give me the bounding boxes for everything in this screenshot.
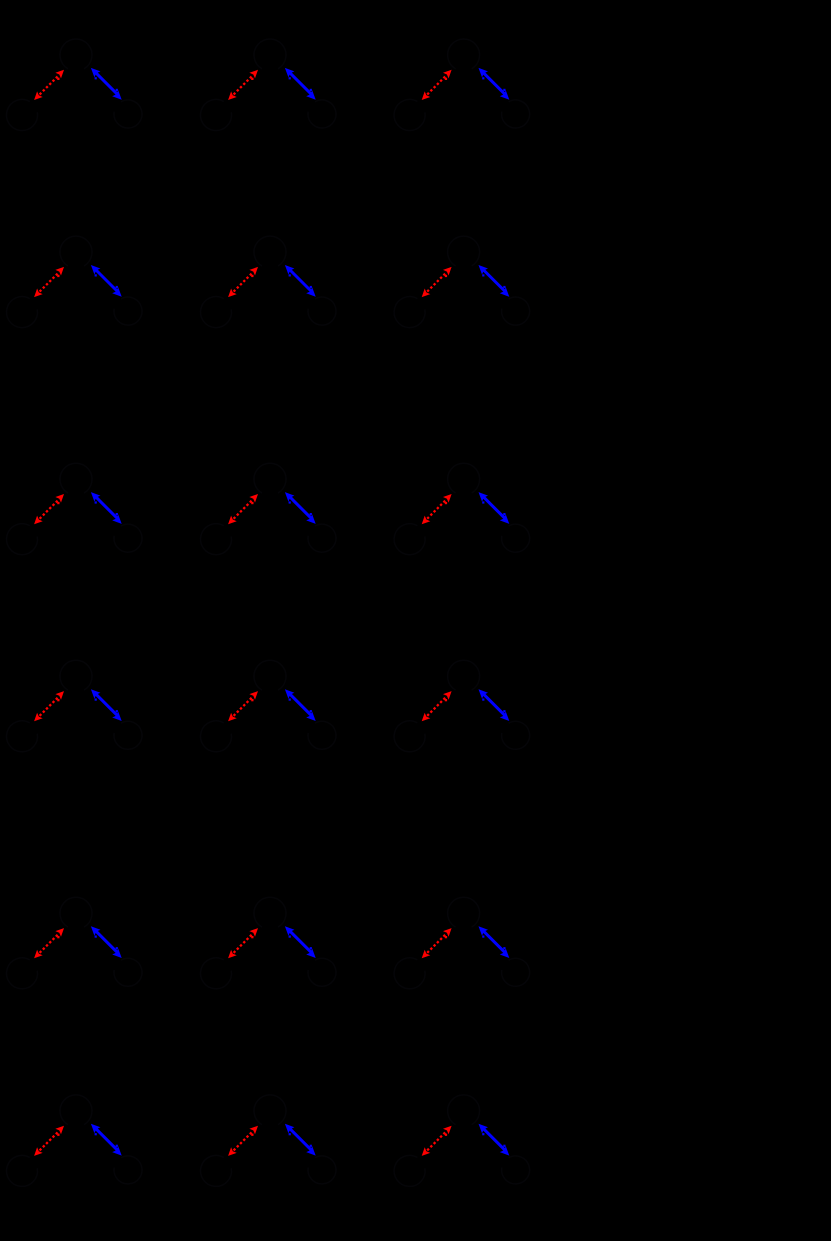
row 5 col 1 blue arrow — [91, 926, 122, 958]
row 5 col 3 blue arrow — [479, 926, 510, 958]
row 6 col 1 red arrow — [34, 1126, 64, 1156]
row 3 col 1 red arrow — [34, 494, 64, 524]
row 1 col 3 loops — [394, 39, 529, 131]
row 3 col 1 loops — [7, 463, 142, 555]
row 1 col 3 blue arrow — [479, 68, 510, 100]
row 4 col 2 loops — [201, 660, 336, 752]
row 5 col 1 red arrow — [34, 928, 64, 958]
row 1 col 3 red arrow — [422, 70, 452, 100]
row 3 col 3 blue arrow — [479, 492, 510, 524]
row 2 col 1 blue arrow — [91, 265, 122, 297]
row 5 col 1 loops — [7, 897, 142, 989]
row 6 col 2 red arrow — [228, 1126, 258, 1156]
row 3 col 3 loops — [394, 463, 529, 555]
row 3 col 2 loops — [201, 463, 336, 555]
row 3 col 2 red arrow — [228, 494, 258, 524]
row 2 col 1 loops — [7, 236, 142, 328]
row 2 col 2 blue arrow — [285, 265, 316, 297]
row 3 col 3 red arrow — [422, 494, 452, 524]
row 5 col 2 loops — [201, 897, 336, 989]
row 4 col 1 blue arrow — [91, 689, 122, 721]
row 4 col 1 loops — [7, 660, 142, 752]
row 1 col 1 red arrow — [34, 70, 64, 100]
row 3 col 2 blue arrow — [285, 492, 316, 524]
row 2 col 2 loops — [201, 236, 336, 328]
row 2 col 1 red arrow — [34, 267, 64, 297]
row 1 col 2 blue arrow — [285, 68, 316, 100]
row 4 col 3 red arrow — [422, 691, 452, 721]
row 6 col 3 red arrow — [422, 1126, 452, 1156]
row 1 col 2 red arrow — [228, 70, 258, 100]
row 1 col 1 loops — [7, 39, 142, 131]
row 4 col 1 red arrow — [34, 691, 64, 721]
row 1 col 2 loops — [201, 39, 336, 131]
row 5 col 2 blue arrow — [285, 926, 316, 958]
row 6 col 2 loops — [201, 1095, 336, 1187]
row 4 col 2 red arrow — [228, 691, 258, 721]
row 4 col 3 blue arrow — [479, 689, 510, 721]
row 6 col 3 loops — [394, 1095, 529, 1187]
row 6 col 3 blue arrow — [479, 1124, 510, 1156]
row 1 col 1 blue arrow — [91, 68, 122, 100]
row 5 col 3 loops — [394, 897, 529, 989]
row 2 col 3 red arrow — [422, 267, 452, 297]
row 3 col 1 blue arrow — [91, 492, 122, 524]
row 2 col 3 loops — [394, 236, 529, 328]
row 5 col 3 red arrow — [422, 928, 452, 958]
row 6 col 2 blue arrow — [285, 1124, 316, 1156]
row 6 col 1 loops — [7, 1095, 142, 1187]
row 6 col 1 blue arrow — [91, 1124, 122, 1156]
row 5 col 2 red arrow — [228, 928, 258, 958]
row 4 col 2 blue arrow — [285, 689, 316, 721]
row 2 col 3 blue arrow — [479, 265, 510, 297]
row 2 col 2 red arrow — [228, 267, 258, 297]
row 4 col 3 loops — [394, 660, 529, 752]
